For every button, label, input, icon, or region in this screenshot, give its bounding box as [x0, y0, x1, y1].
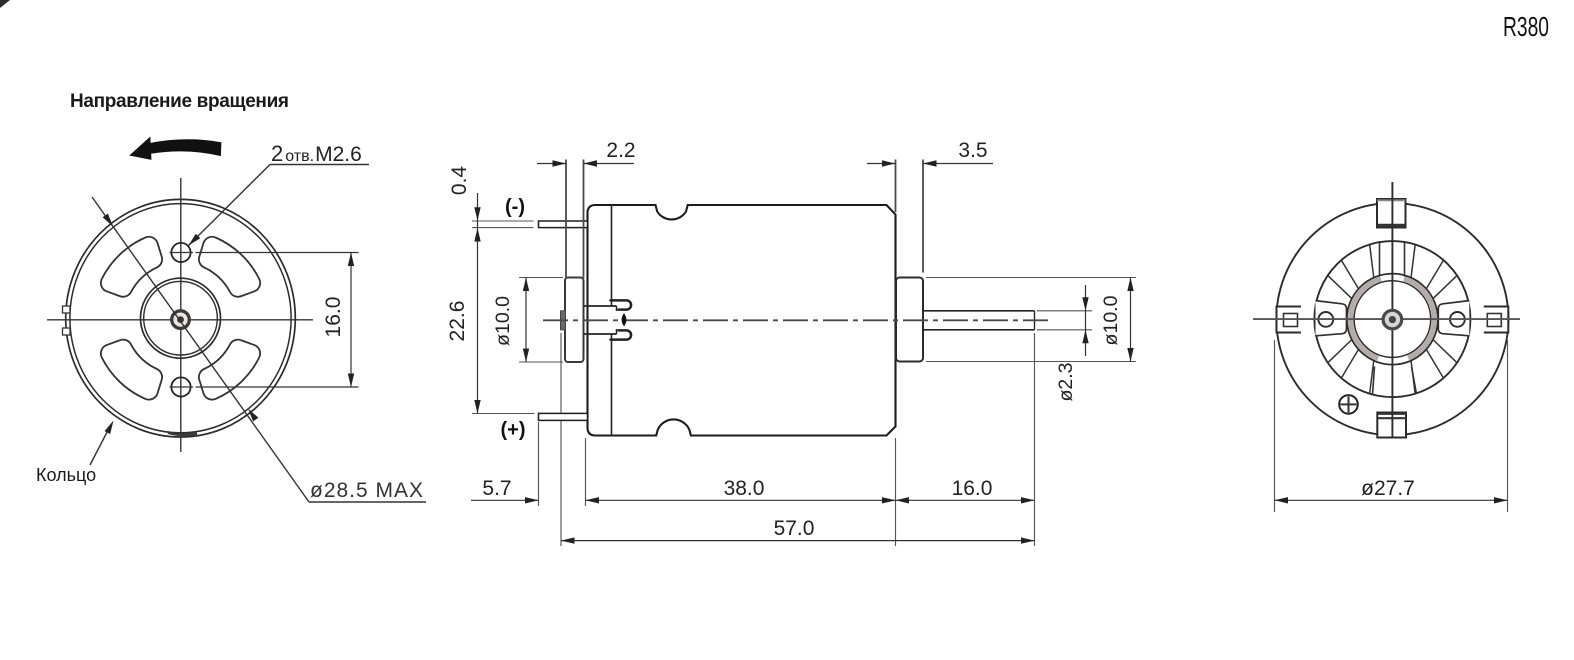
- dimension 16.0 line and arrows (shaft): [896, 499, 1035, 501]
- negative terminal: [539, 221, 588, 228]
- diameter ø28.5 MAX leader line through circle: [92, 197, 309, 502]
- dimension 16.0 line and arrows: [350, 253, 352, 388]
- dimension 3.5 line and arrows: [867, 163, 896, 165]
- vent slot top-right: [199, 237, 260, 297]
- can crimp line (lower): [611, 334, 613, 436]
- scan artifact dark arc at front ring bottom: [168, 433, 197, 435]
- rear left mounting hole: [1318, 312, 1333, 327]
- output shaft ø2.3: [923, 310, 1035, 312]
- dimension 0.4/22.6 shared vertical line: [477, 193, 479, 414]
- dimension 3.5 extension lines: [895, 160, 897, 213]
- can crimp line (upper): [611, 205, 613, 306]
- rear horizontal centerline: [1253, 318, 1520, 320]
- rear bottom tab: [1377, 413, 1406, 438]
- bearing recess gray ring: [1404, 279, 1434, 358]
- mounting hole M2.6 bottom: [171, 377, 190, 396]
- vent slot bottom-left: [101, 340, 162, 400]
- vent slot bottom-right: [199, 340, 260, 400]
- motor can body outline with vent notches: [588, 205, 896, 436]
- dimension 38.0 extension lines: [585, 438, 587, 506]
- front view outer ring (ø28.5 housing): [66, 199, 296, 437]
- endbell bushing boss: [565, 278, 584, 363]
- svg-text:0.4: 0.4: [448, 166, 471, 196]
- bearing collar (front, ø10): [896, 278, 923, 362]
- rear view outer circle: [1276, 203, 1508, 435]
- rear right side tab: [1484, 307, 1509, 333]
- dimension 0.4 extension lines: [472, 220, 534, 222]
- ring keyway notches at 9 o'clock: [63, 306, 71, 313]
- dimension ø10.0 (right) extension lines: [926, 277, 1136, 279]
- dimension ø10.0 (left) line and arrows: [525, 278, 527, 363]
- dimension 22.6 bottom arrow and extension: [472, 413, 535, 415]
- shaft snap clip upper hook: [611, 300, 632, 309]
- svg-text:Направление вращения: Направление вращения: [70, 91, 289, 112]
- shaft clip center lens: [622, 314, 626, 326]
- rear vertical centerline: [1391, 182, 1393, 437]
- dimension 57.0 line and arrows: [561, 540, 1035, 542]
- central boss circles: [141, 278, 221, 358]
- rear left wing around hole: [1316, 301, 1347, 336]
- svg-text:2отв.М2.6: 2отв.М2.6: [271, 141, 362, 166]
- scan artifact top-left corner: [0, 0, 10, 8]
- internal shaft stub lines: [584, 305, 617, 307]
- svg-text:16.0: 16.0: [322, 297, 345, 338]
- svg-text:ø10.0: ø10.0: [492, 296, 514, 346]
- svg-text:(-): (-): [505, 196, 525, 218]
- svg-text:2.2: 2.2: [606, 139, 635, 162]
- rotation direction curved arrow: [131, 138, 221, 159]
- svg-text:Кольцо: Кольцо: [36, 465, 96, 485]
- svg-text:(+): (+): [501, 419, 526, 441]
- svg-text:3.5: 3.5: [958, 139, 987, 162]
- dimension ø2.3 line and arrows: [1085, 285, 1087, 356]
- dimension ø10.0 (left) extension lines: [519, 277, 563, 279]
- front horizontal centerline: [47, 319, 313, 321]
- dimension 5.7 extension line: [538, 422, 540, 506]
- dimension 5.7 line and arrow: [471, 499, 539, 501]
- svg-text:16.0: 16.0: [952, 477, 993, 500]
- svg-text:5.7: 5.7: [482, 477, 511, 500]
- rear left side tab: [1277, 307, 1302, 333]
- dimension 38.0 line and arrows: [586, 499, 896, 501]
- rear screw marker: [1339, 395, 1358, 414]
- label 2 holes M2.6 with leader: [270, 164, 369, 166]
- svg-text:38.0: 38.0: [724, 477, 765, 500]
- mounting hole M2.6 top: [171, 243, 190, 262]
- rear top tab: [1377, 199, 1406, 228]
- shaft rear tip protruding from bushing: [561, 311, 566, 330]
- dimension ø2.3 extension lines: [1037, 310, 1092, 312]
- dimension 2.2 extension lines: [565, 160, 567, 279]
- side view dashed centerline: [543, 319, 1051, 321]
- dimension ø10.0 (right) line and arrows: [1130, 278, 1132, 362]
- vent slot top-left: [101, 237, 162, 297]
- dimension 16.0 extension lines: [196, 252, 359, 254]
- svg-text:22.6: 22.6: [446, 301, 469, 342]
- shaft snap clip lower hook: [611, 330, 632, 339]
- svg-text:ø2.3: ø2.3: [1055, 362, 1077, 401]
- rear top channel (tab slot walls): [1379, 241, 1381, 277]
- rear shaft hub: [1383, 310, 1402, 329]
- dimension ø27.7 line and arrows: [1275, 499, 1508, 501]
- rear radial ribs: [1370, 245, 1374, 277]
- dimension 57.0 extension lines: [560, 333, 562, 413]
- rear bottom channel walls (flared): [1373, 367, 1375, 395]
- svg-text:R380: R380: [1503, 11, 1549, 42]
- svg-text:57.0: 57.0: [774, 517, 815, 540]
- rear endbell rim circle: [1314, 241, 1470, 397]
- dimension ø27.7 extension lines: [1274, 340, 1276, 512]
- svg-text:ø10.0: ø10.0: [1100, 295, 1122, 345]
- rear right mounting hole: [1450, 312, 1465, 327]
- rear right wing around hole: [1438, 301, 1469, 336]
- dimension 2.2 line and arrows: [537, 163, 566, 165]
- shaft hub in front view: [172, 311, 190, 329]
- svg-text:ø27.7: ø27.7: [1361, 477, 1415, 500]
- front vertical centerline: [180, 178, 182, 452]
- svg-text:ø28.5 MAX: ø28.5 MAX: [310, 479, 424, 502]
- positive terminal: [539, 413, 588, 420]
